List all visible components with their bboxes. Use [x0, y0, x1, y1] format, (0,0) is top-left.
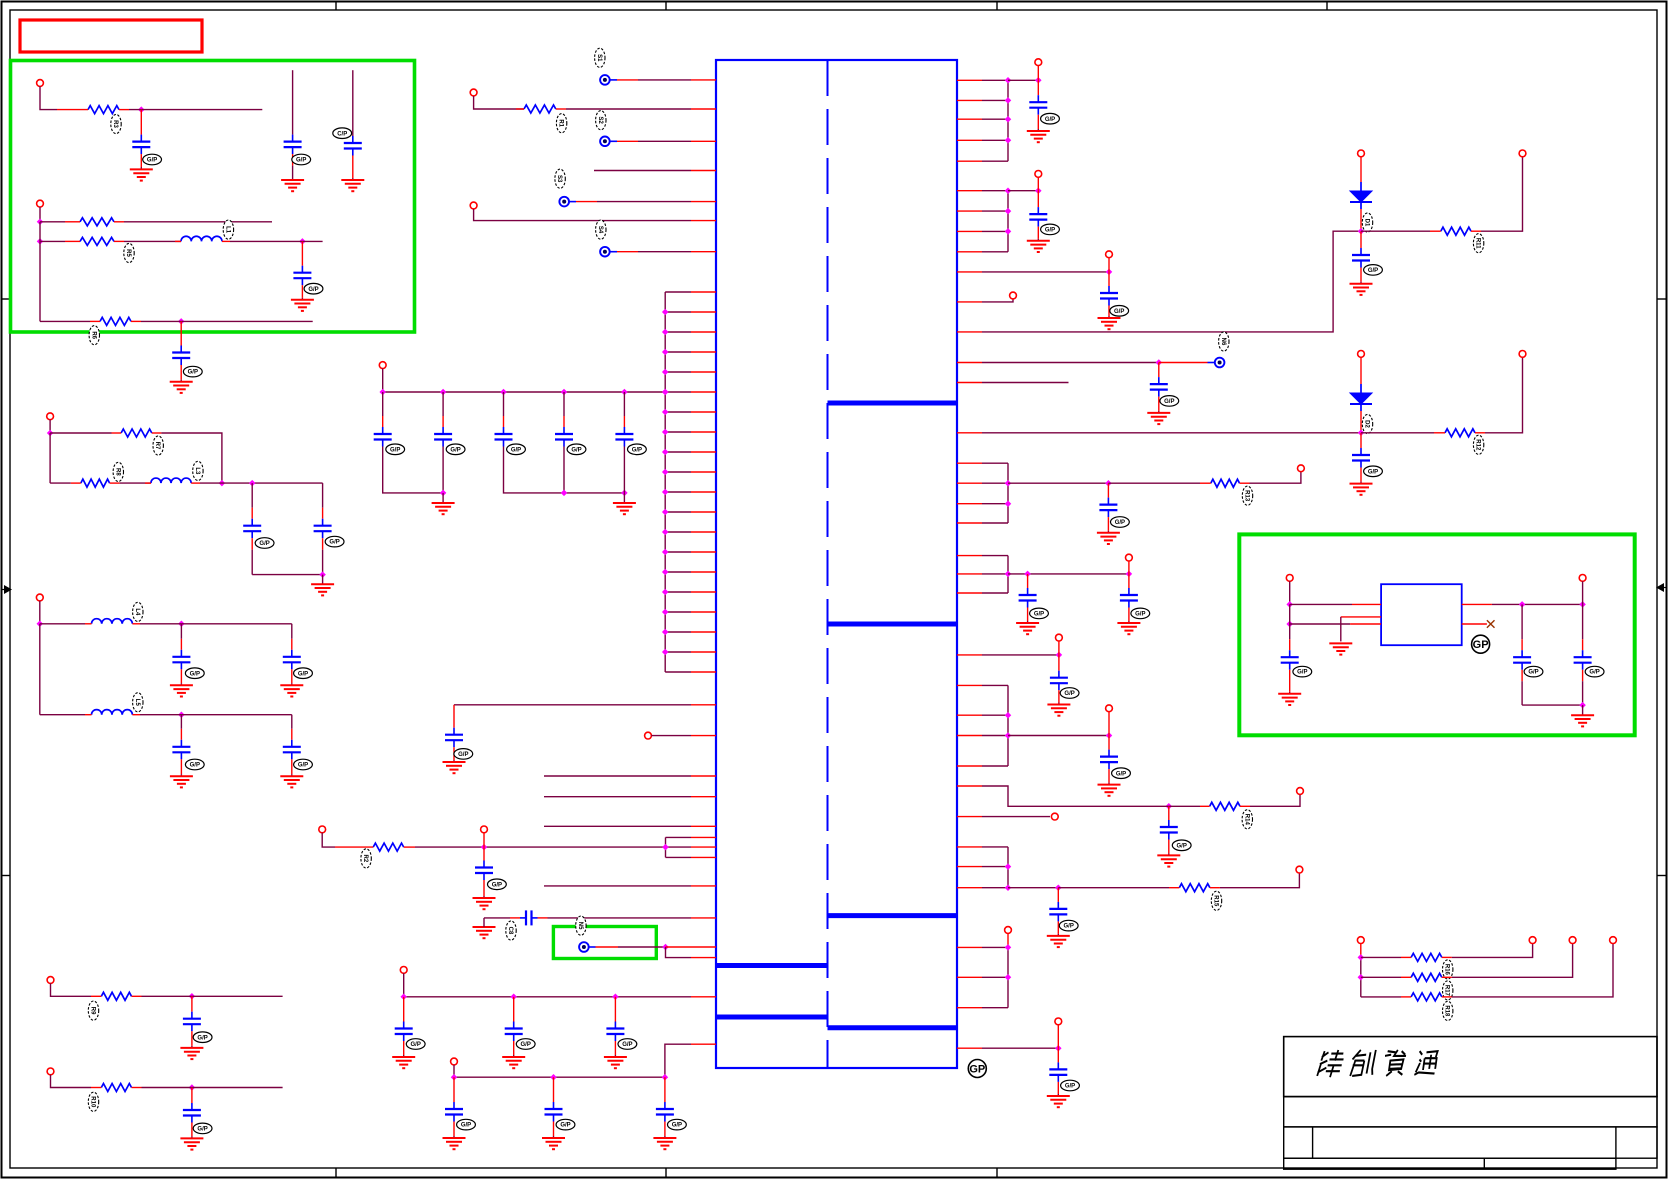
wire pin stub [691, 704, 716, 706]
capacitor C32 [1150, 363, 1168, 411]
ground GND C35 [1016, 621, 1039, 634]
wire G5 out [1008, 735, 1109, 737]
red highlight box [20, 20, 202, 52]
svg-text:G/P: G/P [458, 752, 468, 758]
label label C10 GP [516, 1039, 535, 1050]
junction J-G7a [1005, 944, 1012, 951]
left mini bus [665, 837, 667, 857]
terminal T1 [470, 89, 477, 96]
ground GND U2 [1329, 643, 1352, 654]
capacitor C22 [172, 624, 190, 684]
svg-text:R7: R7 [154, 442, 160, 450]
junction J-G2-190.7 [1005, 187, 1012, 194]
svg-text:R14: R14 [1243, 814, 1249, 826]
label label C35 GP [1030, 608, 1049, 619]
label label C32 GP [1160, 396, 1179, 407]
junction J-271 [1106, 269, 1113, 276]
wire C vert [39, 624, 41, 715]
wire to R13 [1108, 482, 1200, 484]
resistor R16 [1401, 953, 1452, 961]
terminal T22 [1298, 465, 1305, 472]
terminal T21 [1519, 351, 1526, 358]
wire to R11 [1361, 230, 1430, 232]
terminal T33 [1569, 937, 1576, 944]
junction J-A2 [37, 219, 44, 226]
wire pin 301.9 [982, 299, 1013, 302]
capacitor C6 [445, 705, 463, 760]
wire R15 right [1220, 873, 1300, 888]
ground GND C25 [280, 774, 303, 787]
junction J-row2-1 [550, 1074, 557, 1081]
wire pin stub [691, 1043, 716, 1045]
label label C22 GP [185, 668, 204, 679]
junction J-G2c [1035, 187, 1042, 194]
junction J-bank0 [379, 389, 386, 396]
wire pin stub [957, 331, 982, 333]
svg-text:G/P: G/P [1115, 520, 1125, 526]
capacitor C2 [434, 392, 452, 447]
wire pin row [610, 79, 716, 81]
resistor R9 [91, 992, 142, 1000]
wire U2 in2 [1290, 623, 1350, 625]
terminal T17 [1010, 292, 1017, 299]
svg-text:G/P: G/P [259, 541, 269, 547]
terminal T6 [400, 967, 407, 974]
wire C cap2 vert [291, 624, 293, 639]
label label C8 [506, 921, 516, 940]
wire cap leads [442, 447, 444, 493]
junction J-G1-80.3 [1005, 77, 1012, 84]
wire to P6 [1159, 362, 1215, 364]
wire row1 bus [404, 973, 691, 997]
ground GND C41 [1047, 1094, 1070, 1107]
junction J-U2e [1579, 702, 1586, 709]
capacitor C23 [283, 639, 301, 684]
wire pin 362.5 [982, 362, 1159, 364]
border arrow right [1656, 583, 1667, 592]
capacitor C4 [555, 392, 573, 447]
label label C41 GP [1061, 1080, 1080, 1091]
terminal T5 [319, 826, 326, 833]
junction J-B1 [47, 430, 54, 437]
svg-text:R2: R2 [362, 855, 368, 863]
svg-text:G/P: G/P [511, 447, 521, 453]
label label C19 GP [183, 366, 202, 377]
ground GND C15 [130, 167, 153, 181]
label label C26 GP [193, 1032, 212, 1043]
inductor L3 [145, 478, 200, 483]
svg-text:G/P: G/P [197, 1127, 207, 1133]
label label R18 [1443, 1001, 1453, 1020]
wire pin stub [691, 996, 716, 998]
capacitor C5 [615, 392, 633, 447]
wire T35 lead [1289, 581, 1291, 604]
junction J-G2-211.1 [1005, 208, 1012, 215]
ground GND C14 [653, 1136, 676, 1149]
label label R5 [124, 243, 134, 262]
wire C row1 [40, 623, 85, 625]
label label C15 GP [143, 154, 162, 165]
resistor R10 [91, 1084, 142, 1092]
IC U1 thick separator 6 [828, 1025, 958, 1030]
junction J-G1-140.3 [1005, 137, 1012, 144]
wire pin 816.6 [982, 816, 1050, 818]
svg-text:G/P: G/P [1297, 670, 1307, 676]
label label R17 [1443, 981, 1453, 1000]
junction J-G6b [1005, 884, 1012, 891]
svg-text:R9: R9 [90, 1007, 96, 1015]
IC U1 thick separator 1 [828, 401, 958, 406]
wire A row2a right [124, 221, 272, 223]
resistor R14 [1200, 802, 1250, 810]
wire 3R vert [1360, 957, 1362, 997]
capacitor C20 [243, 483, 261, 574]
title block [1284, 1037, 1657, 1170]
label label L3 [193, 461, 203, 480]
label label C31 GP [1364, 265, 1383, 276]
terminal T13 [47, 1068, 54, 1075]
wire B row2 mid [120, 482, 151, 484]
junction J-U2c [1519, 601, 1526, 608]
capacitor C39 [1160, 806, 1178, 853]
terminal T7 [451, 1058, 458, 1065]
wire T4 to IC [651, 735, 691, 737]
wire pin row open [544, 885, 691, 887]
svg-text:G/P: G/P [411, 1042, 421, 1048]
wire to R12 [1361, 432, 1434, 434]
label label R9 [88, 1001, 98, 1020]
ground GND C40 [1047, 934, 1070, 947]
svg-text:G/P: G/P [296, 158, 306, 164]
capacitor C43 [1513, 604, 1531, 705]
junction J-A4 [299, 238, 306, 245]
svg-text:L4: L4 [134, 608, 140, 616]
terminal T4 [645, 732, 652, 739]
terminal T27 [1051, 813, 1058, 820]
capacitor C16 [284, 135, 302, 178]
junction J-A3 [37, 238, 44, 245]
capacitor C24 [172, 715, 190, 775]
wire bank bottom tie 1 [383, 447, 443, 493]
resistor R6 [90, 317, 141, 325]
svg-text:N5: N5 [577, 922, 583, 930]
wire G3 out [1008, 482, 1108, 484]
label label C36 GP [1131, 608, 1150, 619]
label label L1 [223, 220, 233, 239]
IC U1 thick separator 4 [716, 963, 828, 968]
junction J-C2 [178, 621, 185, 628]
capacitor C13 [545, 1077, 563, 1136]
capacitor C21 [314, 508, 332, 575]
wire U2 in1 [1290, 603, 1352, 605]
label label R8 [113, 462, 123, 481]
wire G1 to C28 [1008, 79, 1038, 81]
wire T13 down [51, 1075, 92, 1088]
svg-text:G/P: G/P [298, 763, 308, 769]
junction J-3R2 [1358, 974, 1365, 981]
junction J-row1-0 [400, 994, 407, 1001]
wire A row2b mid [124, 240, 181, 242]
junction J-B2 [219, 480, 226, 487]
svg-text:G/P: G/P [1589, 670, 1599, 676]
wire A row2b right [230, 240, 323, 242]
wire U2 nc pin [1462, 623, 1487, 625]
label label C39 GP [1172, 840, 1191, 851]
svg-text:G/P: G/P [632, 447, 642, 453]
IC U1 center dashed divider [827, 60, 829, 1068]
wire D1 lead [1360, 209, 1362, 231]
svg-text:G/P: G/P [1368, 469, 1378, 475]
junction J-G4c [1126, 571, 1133, 578]
junction J-G1-119.2 [1005, 116, 1012, 123]
wire T31 lead [1360, 944, 1362, 958]
green highlight box 3 [553, 927, 656, 959]
ground GND C6 [443, 760, 466, 773]
wire pin row open [544, 825, 691, 827]
wire T5b lead [483, 833, 485, 847]
label label C11 GP [618, 1039, 637, 1050]
wire cap bank bus [383, 369, 666, 393]
capacitor C37 [1050, 655, 1068, 703]
wire pin stub [957, 816, 982, 818]
junction J-D2a [1358, 430, 1365, 437]
right bus group2 wires [957, 191, 1008, 252]
power label GP1 [968, 1060, 986, 1078]
junction J-G7b [1005, 974, 1012, 981]
svg-text:G/P: G/P [1114, 309, 1124, 315]
terminal T23 [1126, 554, 1133, 561]
svg-text:G/P: G/P [492, 882, 502, 888]
terminal T3 [379, 362, 386, 369]
wire pin 271.9 [982, 271, 1109, 273]
main IC U1 body [716, 60, 957, 1068]
wire 3R row1 right [1452, 944, 1533, 958]
wire pin stub [691, 108, 716, 110]
svg-text:G/P: G/P [147, 158, 157, 164]
ground GND C24 [170, 774, 193, 787]
wire to R15 [1058, 887, 1169, 889]
capacitor C27 [183, 1088, 201, 1137]
capacitor C33 [1352, 433, 1370, 482]
terminal T10 [47, 413, 54, 420]
svg-text:G/P: G/P [1064, 924, 1074, 930]
inductor L5 [85, 710, 140, 715]
wire B vert [49, 433, 51, 483]
junction J-G6a [1005, 863, 1012, 870]
ground GND C17 [341, 178, 364, 191]
wire T14 lead [1037, 66, 1039, 81]
label label C38 GP [1112, 768, 1131, 779]
terminal T19 [1519, 150, 1526, 157]
right bus group3 wires [957, 463, 1008, 523]
connector dot P4 [600, 247, 610, 257]
junction J-bank-g3 [621, 490, 628, 497]
svg-text:S3: S3 [556, 175, 562, 183]
ground GND B [311, 575, 334, 596]
svg-text:G/P: G/P [1045, 117, 1055, 123]
resistor R8 [71, 479, 120, 487]
terminal T29 [1005, 927, 1012, 934]
IC U1 thick separator 5 [716, 1015, 828, 1020]
label label R13 [1242, 486, 1252, 505]
terminal T18 [1358, 150, 1365, 157]
label label R15 [1211, 891, 1221, 910]
wire A row2b [40, 240, 65, 242]
resistor R13 [1200, 479, 1250, 487]
wire 3R row3 right [1452, 944, 1613, 997]
terminal T12 [47, 977, 54, 984]
junction J-G5a [1005, 712, 1012, 719]
wire B row2 [50, 482, 71, 484]
wire pin stub [957, 1047, 982, 1049]
wire pin stub [957, 432, 982, 434]
junction J-786 [1166, 803, 1173, 810]
junction J-D1 [189, 993, 196, 1000]
connector dot P5 [579, 942, 589, 952]
junction J-3R1 [1358, 954, 1365, 961]
svg-text:G/P: G/P [1064, 691, 1074, 697]
wire pin row open [544, 796, 691, 798]
terminal T25 [1106, 705, 1113, 712]
label net label N1 [595, 48, 605, 67]
label label C25 GP [294, 759, 313, 770]
capacitor C34 [1099, 483, 1117, 531]
label label C16 GP [292, 154, 311, 165]
connector dot P1 [600, 75, 610, 85]
wire C row2 right [140, 714, 292, 716]
capacitor C15 [132, 110, 150, 167]
wire pin 1048.2 [982, 1047, 1058, 1049]
svg-text:R5: R5 [125, 249, 131, 257]
svg-text:S2: S2 [597, 117, 603, 125]
connector dot P3 [559, 197, 569, 207]
svg-text:L3: L3 [194, 467, 200, 475]
junction J-U2a [1286, 601, 1293, 608]
ground GND C27 [180, 1136, 203, 1149]
wire R13 right [1250, 472, 1301, 484]
wire T20 lead [1360, 357, 1362, 384]
resistor R11 [1430, 227, 1481, 235]
inductor L2 [175, 236, 230, 241]
wire A row3 right [141, 320, 313, 322]
wire T36 lead [1582, 581, 1584, 604]
junction J-A1 [138, 106, 145, 113]
resistor R12 [1434, 429, 1485, 437]
wire D2 lead [1360, 411, 1362, 433]
ground GND C28 [1027, 129, 1050, 142]
capacitor C30 [1100, 272, 1118, 316]
terminal T14 [1035, 59, 1042, 66]
junction J-bank-g2 [561, 490, 568, 497]
wire pin stub [691, 775, 716, 777]
junction J-G5b [1005, 732, 1012, 739]
wire T11 down [39, 601, 41, 624]
terminal T28 [1296, 866, 1303, 873]
wire pin stub [957, 301, 982, 303]
junction J-G3b [1005, 500, 1012, 507]
wire T8 down [40, 86, 57, 109]
green highlight box 1 [11, 61, 415, 333]
junction J-bank-bus [662, 389, 669, 396]
capacitor C18 [293, 241, 311, 297]
wire gnd stem [483, 918, 485, 927]
company name text [1317, 1050, 1438, 1077]
ground GND C33 [1350, 482, 1373, 495]
sub IC U2 body [1381, 584, 1462, 645]
wire pin stub [666, 946, 717, 948]
svg-text:G/P: G/P [1034, 612, 1044, 618]
wire pin row [569, 201, 716, 203]
ground GND C31 [1350, 282, 1373, 295]
ground GND C16 [281, 178, 304, 191]
wire pin 786 [982, 786, 1158, 806]
right bus group5 wires [957, 685, 1008, 766]
capacitor C41 [1049, 1048, 1067, 1094]
capacitor C3 [495, 392, 513, 447]
junction J-bank-g1 [440, 490, 447, 497]
label label C1 GP [386, 444, 405, 455]
label label C9 GP [406, 1039, 425, 1050]
ground GND C36 [1117, 621, 1140, 634]
wire C8 to IC [548, 917, 692, 919]
label label R12 [1473, 435, 1483, 454]
wire pin 432.8 [982, 432, 1361, 434]
capacitor C1 [374, 392, 392, 447]
wire G2 to C29 [1008, 190, 1038, 192]
svg-text:G/P: G/P [1177, 843, 1187, 849]
border arrow left [2, 585, 13, 594]
label label C5 GP [628, 444, 647, 455]
label label C20 GP [255, 538, 274, 549]
wire row2 to IC [665, 1044, 691, 1077]
wire pin row [454, 704, 691, 706]
wire pin stubs [666, 837, 717, 857]
ground GND C42 [1278, 692, 1301, 705]
junction J-G2-231.4 [1005, 228, 1012, 235]
label net label N3 [555, 169, 565, 188]
junction J-G4a [1005, 571, 1012, 578]
wire U2 out [1492, 603, 1583, 605]
svg-text:G/P: G/P [560, 1123, 570, 1129]
resistor R17 [1401, 973, 1452, 981]
wire T24 lead [1058, 641, 1060, 655]
terminal T26 [1297, 788, 1304, 795]
ground GND C30 [1098, 316, 1121, 329]
wire pin stub [691, 170, 716, 172]
junction J-bank3 [561, 389, 568, 396]
label label R6 [89, 326, 99, 345]
svg-text:G/P: G/P [298, 671, 308, 677]
junction J-654 [1056, 652, 1063, 659]
junction J-D1a [1358, 228, 1365, 235]
svg-text:N6: N6 [1220, 338, 1226, 346]
label label C29 GP [1041, 224, 1060, 235]
label label R10 [88, 1092, 98, 1111]
wire from T2 [474, 209, 691, 221]
connector dot P6 [1215, 358, 1225, 368]
capacitor C8 [510, 910, 548, 925]
wire U2 out stub [1462, 603, 1492, 605]
ground GND C12 [443, 1136, 466, 1149]
wire U2 gnd pin [1341, 617, 1381, 642]
svg-text:R3: R3 [112, 120, 118, 128]
label label C44 GP [1585, 666, 1604, 677]
svg-text:R17: R17 [1444, 985, 1450, 997]
power label GP2 [1472, 635, 1490, 653]
wire pin 654.9 [982, 654, 1059, 656]
capacitor C7 [475, 847, 493, 896]
wire bank bottom tie 2 [504, 447, 625, 493]
